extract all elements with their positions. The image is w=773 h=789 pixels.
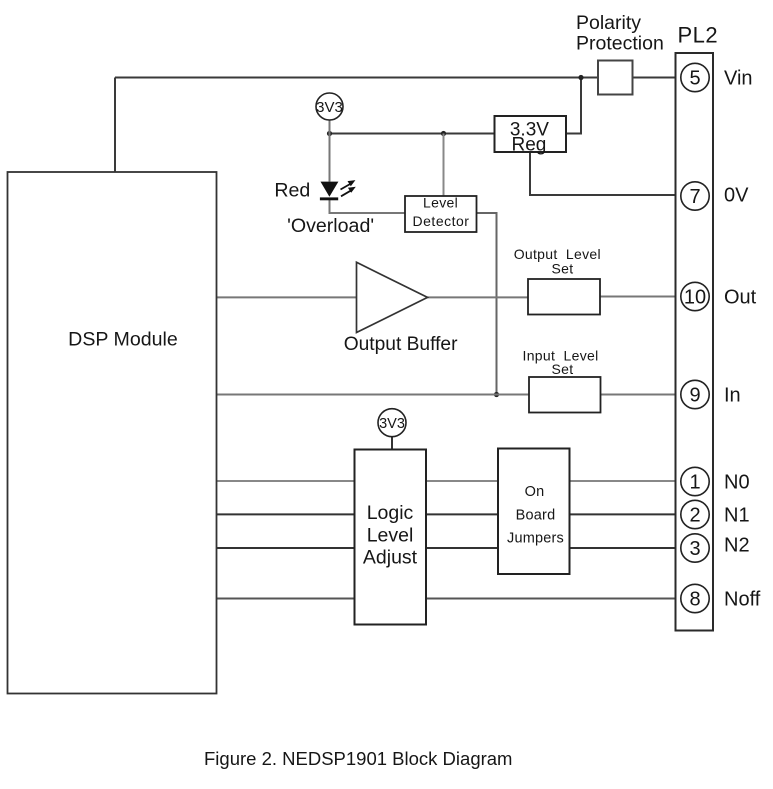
wire DSP to Output Buffer — [216, 296, 357, 298]
wire 3.3V Reg output up to Vin rail — [566, 78, 581, 134]
pin 2 — [681, 500, 709, 528]
svg-text:Detector: Detector — [413, 213, 470, 229]
svg-text:Reg: Reg — [511, 135, 546, 156]
pin 10 — [681, 282, 709, 310]
svg-text:Jumpers: Jumpers — [507, 530, 564, 546]
node junction below 3V3 — [327, 131, 332, 136]
PL2 connector — [676, 23, 719, 631]
wire Noff row — [216, 598, 681, 600]
svg-text:Noff: Noff — [724, 589, 761, 611]
wire 3V3 rail to regulator — [330, 133, 495, 135]
op-amp Output Buffer — [344, 262, 458, 355]
On Board Jumpers — [498, 449, 570, 575]
wire N1 row — [216, 513, 681, 515]
LED light arrow 2 — [341, 187, 356, 197]
node junction above Level Detector — [441, 131, 446, 136]
svg-text:On: On — [525, 484, 545, 500]
svg-text:Red: Red — [274, 179, 310, 201]
svg-text:Vin: Vin — [724, 68, 753, 90]
svg-text:Out: Out — [724, 287, 757, 309]
svg-text:N1: N1 — [724, 505, 750, 527]
svg-text:Logic: Logic — [367, 502, 414, 524]
svg-text:PL2: PL2 — [678, 23, 719, 48]
svg-text:Set: Set — [552, 261, 574, 277]
Logic Level Adjust — [355, 450, 427, 625]
svg-text:Set: Set — [552, 361, 574, 377]
svg-text:DSP Module: DSP Module — [68, 329, 178, 351]
svg-text:N2: N2 — [724, 535, 750, 557]
svg-text:Figure 2. NEDSP1901 Block Diag: Figure 2. NEDSP1901 Block Diagram — [204, 748, 512, 769]
pin 3 — [681, 534, 709, 562]
svg-text:Output Buffer: Output Buffer — [344, 334, 458, 355]
pin 8 — [681, 584, 709, 612]
wire left vertical to DSP top — [114, 78, 116, 173]
wire N2 row — [216, 547, 681, 549]
svg-text:0V: 0V — [724, 185, 749, 207]
3.3V Reg U-reg — [495, 116, 567, 156]
pin 5 — [681, 63, 709, 91]
svg-text:2: 2 — [689, 504, 700, 526]
Level Detector — [405, 195, 477, 233]
pin 9 — [681, 380, 709, 408]
pin 1 — [681, 467, 709, 495]
wire 0V from regulator to pin 7 — [530, 152, 681, 195]
wire N0 row — [216, 480, 681, 482]
svg-text:8: 8 — [689, 588, 700, 610]
wire 3V3 stub to Logic Level Adjust — [391, 437, 393, 450]
Input Level Set — [523, 348, 601, 413]
svg-text:1: 1 — [689, 471, 700, 493]
svg-text:Output Level: Output Level — [514, 246, 601, 262]
svg-text:Polarity: Polarity — [576, 12, 641, 34]
svg-text:Adjust: Adjust — [363, 547, 418, 569]
LED D1 red — [320, 182, 339, 201]
DSP Module — [8, 172, 217, 694]
node junction on In row — [494, 392, 499, 397]
svg-text:3V3: 3V3 — [316, 99, 343, 116]
wire Input Level Set to pin 9 — [600, 394, 681, 396]
svg-text:In: In — [724, 385, 741, 407]
svg-text:'Overload': 'Overload' — [287, 215, 374, 237]
LED light arrow 1 — [341, 180, 356, 189]
svg-text:N0: N0 — [724, 472, 750, 494]
svg-text:Board: Board — [516, 507, 556, 523]
wire Output Buffer to Output Level Set — [428, 296, 529, 298]
Output Level Set — [514, 246, 601, 315]
svg-text:Level: Level — [367, 525, 414, 547]
wire Level Detector top stub — [443, 134, 445, 197]
svg-text:9: 9 — [689, 384, 700, 406]
svg-text:Protection: Protection — [576, 32, 664, 54]
wire DSP to Input Level Set (In row) — [216, 394, 529, 396]
pin 7 — [681, 182, 709, 210]
3V3 supply node (top) — [316, 93, 343, 120]
wire Level Detector output down to In row — [477, 213, 497, 395]
Polarity Protection — [576, 12, 664, 95]
svg-text:Level: Level — [423, 195, 458, 211]
wire Vin rail (top) — [115, 77, 681, 79]
wire Output Level Set to pin 10 — [600, 296, 681, 298]
3V3 supply node (lower) — [378, 409, 406, 437]
svg-text:5: 5 — [689, 67, 700, 89]
wire LED cathode to Level Detector — [330, 200, 406, 213]
node junction on Vin rail — [578, 75, 583, 80]
svg-text:3V3: 3V3 — [379, 416, 405, 432]
svg-text:3: 3 — [689, 538, 700, 560]
svg-text:10: 10 — [684, 286, 706, 308]
svg-text:7: 7 — [689, 186, 700, 208]
wire 3V3 circle down to LED anode — [329, 120, 331, 182]
